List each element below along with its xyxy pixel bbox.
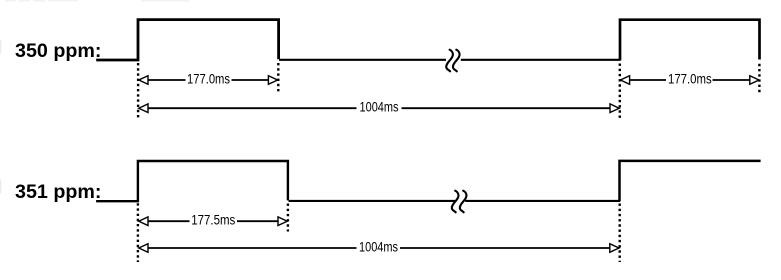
- dimension 1004ms (351 period) right arrowhead: [610, 244, 619, 253]
- dimension 177.5ms (351 pulse1) left arrowhead: [139, 217, 148, 226]
- dimension 177.0ms (350 pulse1) left arrowhead: [139, 76, 148, 85]
- extension dotted line at 351 pulse1 rising edge: [137, 203, 139, 262]
- cropped-text artifact top edge: [5, 0, 189, 2]
- break symbol squiggle 2 (350 line): [453, 50, 460, 72]
- svg-text:177.0ms: 177.0ms: [668, 71, 712, 86]
- break symbol squiggle 1 (351 line): [452, 191, 459, 213]
- wire: 351 waveform pulse 2: [620, 161, 761, 202]
- svg-text:177.0ms: 177.0ms: [187, 71, 230, 86]
- cropped-char artifact left edge top: [0, 40, 1, 54]
- svg-text:1004ms: 1004ms: [359, 239, 398, 254]
- dimension 177.0ms (350 pulse1) line: [148, 79, 186, 81]
- extension dotted line at 351 pulse1 falling edge: [287, 204, 289, 232]
- dimension 177.0ms (350 pulse1) right arrowhead: [268, 76, 277, 85]
- svg-text:351 ppm:: 351 ppm:: [15, 181, 102, 203]
- dimension 177.0ms (350 pulse2) right arrowhead: [750, 76, 759, 85]
- extension dotted line at 350 pulse2 rising edge: [619, 64, 621, 120]
- dimension 1004ms (351 period) left arrowhead: [139, 244, 148, 253]
- break symbol squiggle 2 (351 line): [460, 191, 467, 213]
- dimension 1004ms (351 period) line: [148, 247, 357, 249]
- wire: 350 waveform pulse 2: [620, 20, 760, 61]
- dimension 177.0ms (350 pulse2) left arrowhead: [620, 76, 629, 85]
- wire: 350 low segment left of break: [279, 59, 446, 61]
- wire: 350 low segment right of break: [461, 59, 621, 61]
- extension dotted line at 350 pulse1 rising edge: [137, 63, 139, 120]
- wire: 351 waveform pulse 1: [96, 161, 288, 201]
- extension dotted line at 351 pulse2 rising edge: [619, 204, 621, 263]
- svg-text:177.5ms: 177.5ms: [191, 213, 235, 228]
- extension dotted line at 350 pulse1 falling edge: [277, 63, 279, 93]
- dimension 1004ms (350 period) left arrowhead: [139, 104, 148, 113]
- wire: 351 low segment left of break: [289, 200, 457, 202]
- dimension 1004ms (350 period) right arrowhead: [610, 104, 619, 113]
- extension dotted line at 350 pulse2 falling edge: [758, 64, 760, 95]
- wire: 350 waveform pulse 1: [96, 20, 278, 60]
- break symbol squiggle 1 (350 line): [446, 50, 453, 72]
- svg-text:1004ms: 1004ms: [360, 99, 399, 114]
- cropped-char artifact left edge bottom: [0, 180, 1, 194]
- dimension 177.0ms (350 pulse2) line: [630, 79, 666, 81]
- wire: 351 low segment right of break: [465, 200, 620, 202]
- svg-text:350 ppm:: 350 ppm:: [15, 40, 102, 62]
- dimension 177.5ms (351 pulse1) right arrowhead: [278, 217, 287, 226]
- dimension 177.5ms (351 pulse1) line: [148, 220, 190, 222]
- dimension 1004ms (350 period) line: [148, 107, 357, 109]
